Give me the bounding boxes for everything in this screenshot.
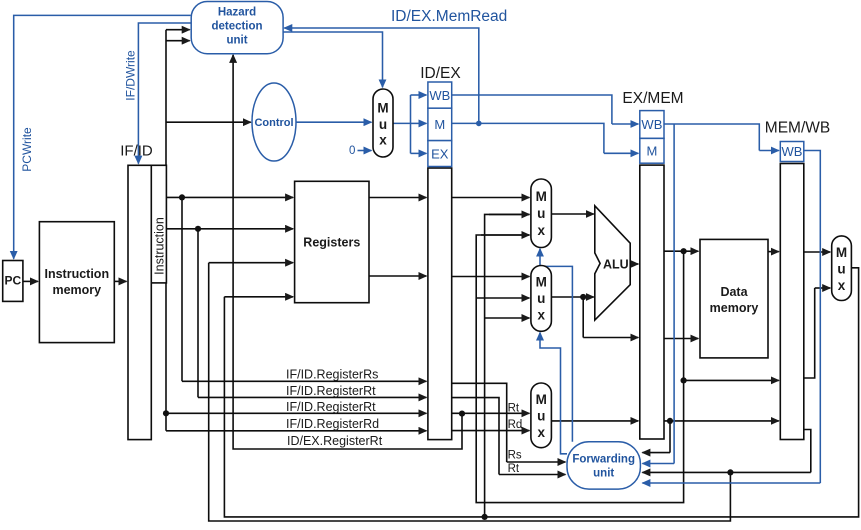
wire hazard unit to stall mux select bbox=[283, 32, 382, 82]
block Forwarding unit bbox=[567, 442, 640, 489]
wire PCWrite from hazard unit to PC bbox=[14, 15, 191, 254]
wire Instruction memory to IF/ID bbox=[114, 280, 126, 282]
wire Rs riser down bbox=[181, 197, 183, 381]
mux register destination bbox=[531, 383, 552, 448]
svg-text:detection: detection bbox=[211, 20, 262, 32]
svg-text:M: M bbox=[434, 117, 445, 132]
svg-text:M: M bbox=[536, 189, 547, 204]
svg-text:IF/ID.RegisterRd: IF/ID.RegisterRd bbox=[286, 417, 379, 431]
wire bus to Registers read register 1 bbox=[166, 196, 293, 198]
svg-text:memory: memory bbox=[52, 283, 101, 297]
svg-text:u: u bbox=[537, 409, 545, 424]
wire Registers read data 1 to ID/EX bbox=[369, 197, 426, 199]
wire write data value to EX/MEM bbox=[582, 297, 584, 338]
wire MEM/WB.RegisterRd to forwarding unit bbox=[804, 430, 811, 473]
svg-text:ID/EX: ID/EX bbox=[420, 65, 461, 82]
svg-text:Control: Control bbox=[254, 117, 293, 129]
wire ID/EX WB control to EX/MEM bbox=[452, 95, 612, 124]
svg-text:PCWrite: PCWrite bbox=[20, 127, 34, 172]
svg-text:x: x bbox=[379, 133, 387, 148]
svg-text:u: u bbox=[379, 117, 387, 132]
svg-text:MEM/WB: MEM/WB bbox=[765, 120, 830, 137]
svg-text:Rt: Rt bbox=[508, 463, 520, 475]
node junction ID/EX.MemRead tap bbox=[476, 121, 482, 127]
wire ALU output to EX/MEM bbox=[630, 263, 638, 265]
wire zero constant to stall mux bbox=[358, 150, 372, 152]
field ID/EX EX bbox=[428, 141, 452, 167]
svg-text:ID/EX.RegisterRt: ID/EX.RegisterRt bbox=[287, 434, 383, 448]
svg-text:IF/ID: IF/ID bbox=[120, 143, 153, 160]
wire destination mux output to EX/MEM bbox=[551, 420, 638, 422]
wire ID/EX.RegisterRt loop to hazard detection unit bbox=[233, 56, 462, 450]
wire MEM/WB ALU result to final mux bbox=[804, 288, 815, 378]
svg-text:memory: memory bbox=[710, 301, 759, 315]
svg-text:EX/MEM: EX/MEM bbox=[622, 90, 683, 107]
node junction register destination after EX/MEM bbox=[667, 418, 673, 424]
wire EX/MEM to data memory write data bbox=[664, 338, 698, 340]
svg-text:Registers: Registers bbox=[303, 236, 360, 250]
wire MEM/WB forward vertical bbox=[485, 214, 530, 517]
svg-text:ALU: ALU bbox=[603, 257, 629, 271]
node junction on read register 2 line bbox=[195, 226, 201, 232]
wire MEM/WB read data to final mux bbox=[804, 251, 830, 253]
svg-text:unit: unit bbox=[593, 468, 614, 480]
node junction ALU result to MEM/WB bbox=[681, 377, 687, 383]
wire EX/MEM.RegWrite to forwarding unit bbox=[673, 124, 675, 464]
instruction field box bbox=[151, 165, 166, 283]
svg-text:M: M bbox=[536, 275, 547, 290]
wire mux A to ALU bbox=[551, 213, 593, 215]
wire ID/EX Rt to forwarding unit bbox=[452, 398, 499, 475]
node junction mux B output bbox=[580, 294, 586, 300]
wire stall mux output to ID/EX control fields bbox=[393, 122, 411, 124]
wire ForwardA select to mux A bbox=[540, 253, 572, 442]
op Control bbox=[252, 83, 296, 161]
svg-text:M: M bbox=[377, 101, 388, 116]
svg-text:IF/ID.RegisterRt: IF/ID.RegisterRt bbox=[286, 384, 376, 398]
mux ALU input B bbox=[531, 266, 552, 332]
wire IF/ID.RegisterRd to ID/EX bbox=[166, 430, 426, 432]
wire IF/DWrite from hazard unit to IF/ID bbox=[138, 23, 190, 158]
wire read data 1 to ALU mux A bbox=[452, 197, 530, 199]
svg-text:u: u bbox=[537, 291, 545, 306]
wire ID/EX M control to EX/MEM bbox=[452, 123, 604, 153]
node junction MEM/WB RegisterRd branch bbox=[727, 469, 733, 475]
svg-text:IF/ID.RegisterRs: IF/ID.RegisterRs bbox=[286, 368, 378, 382]
svg-text:Forwarding: Forwarding bbox=[572, 454, 635, 466]
field MEM/WB WB bbox=[780, 142, 804, 162]
svg-text:EX: EX bbox=[431, 147, 449, 162]
mux write back bbox=[832, 236, 852, 301]
wire write data loop from final mux to Registers bbox=[224, 268, 858, 517]
wire bus to hazard unit input Rs bbox=[166, 29, 190, 31]
pipeline register ID/EX bbox=[428, 168, 452, 440]
svg-text:ID/EX.MemRead: ID/EX.MemRead bbox=[391, 8, 507, 25]
svg-text:M: M bbox=[836, 245, 847, 260]
wire Registers read data 2 to ID/EX bbox=[369, 275, 426, 277]
block Registers bbox=[295, 181, 369, 302]
wire mux B to ALU bbox=[551, 296, 593, 298]
node junction Rt line to hazard loop bbox=[459, 411, 465, 417]
field ID/EX WB bbox=[428, 82, 452, 108]
svg-text:Data: Data bbox=[720, 285, 748, 299]
svg-text:PC: PC bbox=[4, 274, 21, 288]
node junction on instruction bus at RegisterRt bbox=[163, 410, 169, 416]
wire Rt to register destination mux bbox=[452, 412, 530, 414]
svg-text:IF/ID.RegisterRt: IF/ID.RegisterRt bbox=[286, 400, 376, 414]
wire IF/ID.RegisterRt to ID/EX bbox=[198, 396, 426, 398]
svg-text:Instruction: Instruction bbox=[45, 267, 110, 281]
wire ID/EX Rs to forwarding unit bbox=[452, 383, 507, 462]
svg-text:x: x bbox=[537, 308, 545, 323]
wire EX/MEM to data memory address bbox=[664, 250, 698, 252]
node junction on read register 1 line bbox=[179, 194, 185, 200]
wire ForwardB select to mux B bbox=[540, 337, 567, 454]
wire bus to Control bbox=[166, 121, 251, 123]
mux stall control bbox=[373, 89, 393, 157]
svg-text:u: u bbox=[837, 262, 845, 277]
wire MEM/WB WB control to forwarding unit bbox=[804, 151, 821, 484]
svg-text:M: M bbox=[536, 392, 547, 407]
wire EX/MEM.RegisterRd to forwarding unit bbox=[669, 421, 671, 453]
block Hazard detection unit bbox=[191, 2, 283, 54]
wire EX/MEM WB control to MEM/WB bbox=[664, 124, 759, 151]
wire IF/ID.RegisterRs to ID/EX bbox=[182, 380, 426, 382]
wire Rt riser down bbox=[197, 229, 199, 398]
svg-text:Rs: Rs bbox=[508, 450, 522, 462]
svg-text:u: u bbox=[537, 206, 545, 221]
node junction write-back value to MEM/WB forward bbox=[482, 514, 488, 520]
svg-text:x: x bbox=[838, 278, 846, 293]
svg-text:Instruction: Instruction bbox=[152, 217, 166, 275]
svg-text:WB: WB bbox=[429, 88, 450, 103]
svg-text:IF/DWrite: IF/DWrite bbox=[124, 50, 138, 101]
svg-text:WB: WB bbox=[782, 144, 803, 159]
wire ALU result tap to MEM/WB bbox=[684, 379, 779, 381]
op ALU U1 bbox=[595, 206, 630, 320]
svg-text:WB: WB bbox=[641, 117, 662, 132]
pipeline register MEM/WB bbox=[780, 164, 804, 440]
field EX/MEM M bbox=[640, 138, 664, 163]
wire IF/ID.RegisterRt second to ID/EX bbox=[166, 412, 426, 414]
wire read data 2 to ALU mux B bbox=[452, 276, 530, 278]
wire Control to stall mux bbox=[296, 121, 371, 123]
pipeline register IF/ID bbox=[128, 165, 151, 439]
wire MEM/WB forward branch to mux B bbox=[485, 317, 530, 319]
wire instruction bus vertical bbox=[165, 30, 167, 431]
wire EX/MEM forward vertical bbox=[476, 235, 683, 503]
wire Rd to register destination mux bbox=[452, 430, 530, 432]
svg-text:M: M bbox=[646, 144, 657, 159]
field EX/MEM WB bbox=[640, 111, 664, 139]
svg-text:Rd: Rd bbox=[508, 419, 523, 431]
svg-text:x: x bbox=[537, 223, 545, 238]
wire bus to hazard unit input Rt bbox=[166, 40, 190, 42]
node junction ALU result tap bbox=[681, 248, 687, 254]
pipeline register EX/MEM bbox=[640, 165, 664, 439]
svg-text:Hazard: Hazard bbox=[218, 6, 256, 18]
register PC bbox=[3, 261, 23, 302]
wire PC to Instruction memory bbox=[23, 280, 38, 282]
svg-text:Rt: Rt bbox=[508, 403, 520, 415]
wire data memory read data to MEM/WB bbox=[768, 251, 779, 253]
wire ID/EX.MemRead to hazard unit bbox=[290, 28, 479, 123]
svg-text:unit: unit bbox=[226, 34, 247, 46]
field ID/EX M bbox=[428, 108, 452, 140]
wire EX/MEM forward branch to mux B bbox=[476, 297, 529, 299]
svg-text:0: 0 bbox=[349, 145, 355, 157]
mux ALU input A bbox=[531, 179, 552, 248]
wire bus to Registers read register 2 bbox=[166, 228, 293, 230]
wire register destination through EX/MEM to MEM/WB bbox=[664, 420, 779, 422]
svg-text:x: x bbox=[537, 425, 545, 440]
wire write register loop from MEM/WB to Registers bbox=[209, 263, 731, 521]
block Data memory bbox=[700, 239, 768, 358]
block Instruction memory bbox=[39, 222, 114, 343]
